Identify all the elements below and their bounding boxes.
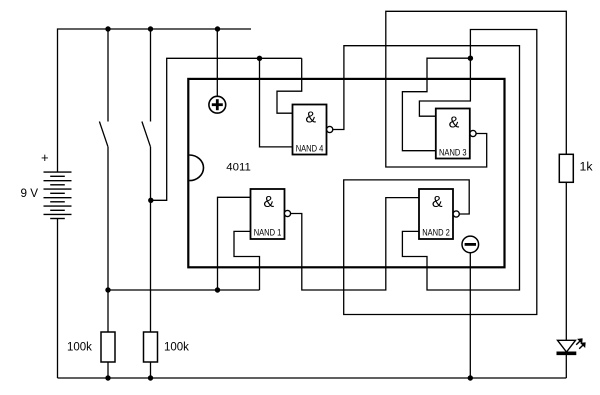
node bus58-NAND4 — [257, 56, 262, 61]
svg-text:&: & — [432, 194, 443, 211]
wire NAND4 top input staircase — [277, 58, 302, 113]
svg-text:&: & — [449, 115, 460, 132]
node minus-ground — [468, 375, 473, 380]
node S1-R1 — [105, 287, 110, 292]
LED D1 — [557, 339, 585, 353]
switch S1 — [99, 122, 108, 147]
node NAND1-input — [215, 287, 220, 292]
IC notch — [189, 155, 203, 181]
wire node S2 to y=58 bus — [151, 58, 302, 200]
plus terminal circle — [209, 96, 226, 113]
svg-text:&: & — [263, 194, 274, 211]
wire switch S1 branch (rail to R1 through S1) — [107, 29, 109, 122]
wire node S1 horizontal y=290 — [108, 289, 260, 291]
wire NAND1 bottom input staircase — [234, 231, 260, 290]
wire S2 bottom lead down to R2 — [150, 147, 152, 332]
svg-text:9 V: 9 V — [21, 187, 39, 200]
NAND 4 gate — [293, 105, 333, 155]
resistor R2 100k — [144, 332, 158, 362]
node NAND2out-NAND3 — [468, 56, 473, 61]
battery 9V — [44, 172, 72, 218]
svg-text:NAND 3: NAND 3 — [439, 147, 467, 157]
wire NAND1 top input from node S1 — [218, 197, 251, 290]
wire R1 bottom to ground rail — [107, 362, 109, 378]
svg-text:NAND 2: NAND 2 — [422, 228, 450, 238]
svg-text:NAND 1: NAND 1 — [254, 228, 282, 238]
IC U1 4011 outline — [188, 79, 504, 267]
LED emission arrows — [576, 339, 585, 349]
wire NAND3 bottom input from y=58 dot — [402, 58, 470, 151]
wire +9V top rail — [58, 29, 252, 172]
wire S1 bottom lead down to R1 — [107, 147, 109, 332]
node S2-junction — [148, 198, 153, 203]
node rail-plus — [215, 26, 220, 31]
svg-text:4011: 4011 — [226, 161, 251, 173]
svg-text:&: & — [305, 110, 316, 127]
svg-text:+: + — [41, 150, 49, 165]
wire NAND4 output to NAND2 bottom input — [333, 46, 520, 290]
svg-text:100k: 100k — [67, 342, 92, 354]
node R1-ground — [105, 375, 110, 380]
wire LED cathode to ground rail — [565, 355, 567, 378]
svg-text:1k: 1k — [580, 160, 594, 174]
resistor R3 1k — [559, 154, 573, 182]
resistor R1 100k — [101, 332, 115, 362]
NAND 1 gate — [251, 189, 291, 239]
svg-text:100k: 100k — [164, 342, 189, 354]
wire NAND4 bottom input drop — [260, 58, 293, 147]
switch S2 — [142, 122, 151, 147]
wire switch S2 branch (rail to S2) — [150, 29, 152, 122]
NAND 3 gate — [436, 109, 476, 159]
wire NAND2 output loop to NAND3 inputs — [344, 30, 537, 315]
svg-text:NAND 4: NAND 4 — [296, 143, 324, 153]
wire R2 bottom to ground rail — [150, 362, 152, 378]
node R2-ground — [148, 375, 153, 380]
wire minus-circle stub to ground rail — [469, 253, 471, 378]
node rail-S1 — [105, 26, 110, 31]
node rail-S2 — [148, 26, 153, 31]
wire battery negative to bottom rail — [57, 219, 59, 379]
NAND 2 gate — [419, 189, 459, 239]
wire NAND3 output to 1k resistor — [386, 11, 567, 167]
minus terminal circle — [462, 236, 479, 253]
wire bottom ground rail — [58, 377, 567, 379]
wire plus-circle stub from rail — [216, 29, 218, 96]
wire 1k resistor to LED — [565, 182, 567, 340]
wire NAND1 output to NAND2 top input — [291, 198, 420, 290]
